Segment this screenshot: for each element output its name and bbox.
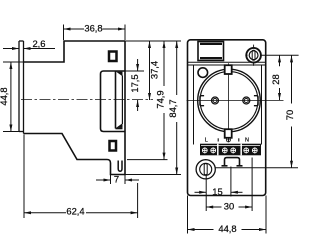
- svg-text:L: L: [205, 138, 208, 144]
- svg-text:2,6: 2,6: [32, 38, 45, 49]
- svg-text:44,8: 44,8: [218, 223, 236, 234]
- svg-text:28: 28: [270, 74, 281, 84]
- svg-text:N: N: [245, 138, 249, 144]
- svg-text:84,7: 84,7: [167, 99, 178, 117]
- svg-text:70: 70: [284, 110, 295, 120]
- svg-text:44,8: 44,8: [0, 87, 9, 105]
- svg-text:15: 15: [212, 186, 222, 197]
- svg-text:74,9: 74,9: [155, 90, 166, 108]
- svg-text:62,4: 62,4: [66, 206, 84, 217]
- svg-text:36,8: 36,8: [84, 23, 102, 34]
- svg-text:37,4: 37,4: [149, 61, 160, 79]
- svg-text:17,5: 17,5: [129, 74, 140, 92]
- svg-text:7: 7: [114, 174, 119, 185]
- svg-text:30: 30: [224, 201, 234, 212]
